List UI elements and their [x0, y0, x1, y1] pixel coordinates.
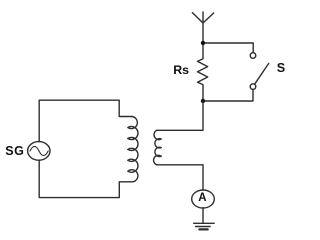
ground [194, 223, 215, 226]
svg-text:S: S [277, 61, 285, 75]
left loop: top wire [39, 100, 132, 142]
wire node2 down to transformer secondary top [157, 101, 203, 130]
resistor Rs [198, 43, 208, 101]
svg-text:A: A [198, 192, 206, 204]
svg-text:Rs: Rs [173, 63, 189, 77]
wire switch to node2 [203, 90, 253, 102]
wire ammeter to ground [202, 208, 204, 223]
sine wave inside SG [30, 146, 48, 155]
node A (antenna junction) [201, 41, 205, 45]
wire node1 to switch [203, 43, 253, 53]
node B (resistor bottom junction) [201, 99, 205, 103]
switch S [250, 53, 256, 59]
antenna [192, 12, 213, 43]
source SG circle [28, 142, 50, 161]
ammeter A [192, 190, 215, 208]
transformer secondary coil L2 [154, 130, 162, 165]
svg-text:SG: SG [5, 144, 24, 158]
left loop: bottom wire [39, 160, 133, 197]
transformer primary coil L1 [128, 117, 138, 182]
switch blade [255, 63, 269, 84]
wire secondary bottom to ammeter [157, 165, 203, 190]
